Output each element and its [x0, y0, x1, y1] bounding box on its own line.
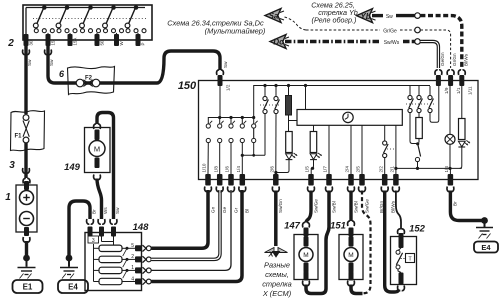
svg-text:150: 150 [178, 80, 197, 92]
wire timer to 2/1 [395, 125, 397, 174]
svg-text:Bl/Ws: Bl/Ws [463, 53, 468, 66]
svg-text:Sw: Sw [223, 61, 228, 68]
arrow symbol Dc [270, 35, 286, 49]
pin 2/4 of 150 [348, 174, 354, 186]
svg-text:1/7: 1/7 [323, 166, 328, 173]
clock symbol [343, 112, 353, 122]
svg-text:30: 30 [29, 40, 34, 45]
svg-text:1/9: 1/9 [444, 87, 449, 94]
pin 4 of 148 [135, 279, 142, 285]
motor 147 box [294, 235, 318, 280]
wire timer to 1/7 [328, 125, 330, 174]
wire Bl/Ws 2/1 to 152 top [396, 191, 401, 230]
svg-text:E4: E4 [68, 283, 78, 292]
LED D3 in 150 [458, 141, 465, 147]
arrow symbol Sa [265, 9, 281, 23]
switch unit 3 in 2 [88, 5, 93, 10]
svg-text:E1: E1 [23, 283, 33, 292]
mechanical coupling dotted line in 2 [33, 18, 146, 20]
pin 1/2 of 150 [218, 75, 223, 86]
pin 1 of 148 [135, 267, 142, 273]
svg-text:M: M [303, 252, 308, 259]
svg-text:15A: 15A [73, 38, 78, 46]
wire fuse3 to battery [24, 143, 27, 178]
internal rail in 150 [396, 167, 462, 169]
wire Br 1/3 to ground E4 [450, 191, 484, 221]
switch S1 in 150 [264, 87, 266, 96]
coupling dots S6 [387, 148, 396, 150]
svg-text:Bl/Ws: Bl/Ws [390, 200, 395, 213]
connector on Gr/Ge wire [415, 27, 421, 33]
svg-text:148: 148 [133, 222, 150, 233]
svg-text:1/8: 1/8 [213, 166, 218, 173]
switch S3 in 150 [409, 86, 411, 95]
svg-text:F1: F1 [14, 134, 22, 140]
pin 1/5 of 150 [308, 174, 314, 186]
switch unit 4 in 2 [111, 5, 116, 10]
arrow symbol X [265, 248, 275, 253]
pin 1/9 of 150 [436, 75, 441, 86]
glow plug resistor 2 in 148 [94, 258, 100, 260]
svg-text:Sw: Sw [49, 59, 54, 66]
switch in 152 [398, 248, 401, 250]
svg-text:Разные: Разные [264, 261, 290, 270]
svg-text:1/11: 1/11 [467, 86, 472, 95]
wire 1/2 internal [219, 86, 221, 118]
wire 2/4 to motor 151 [349, 191, 352, 222]
ground E4 left symbol [68, 258, 70, 267]
svg-text:Gr/Gn: Gr/Gn [452, 53, 457, 66]
label box E4 right [474, 242, 498, 253]
connector into 148 middle [98, 219, 105, 224]
svg-text:Sw/Gn: Sw/Gn [278, 199, 283, 213]
svg-text:Dc: Dc [273, 38, 284, 47]
switch S7 in 150 [418, 144, 421, 157]
svg-text:схемы,: схемы, [265, 270, 289, 279]
pin 2/1 of 150 [393, 174, 399, 186]
wire Gn 148/5 to 150 1/10 [151, 190, 208, 248]
switch S5 in 150 [429, 86, 431, 95]
contact row in 2 [34, 29, 38, 33]
bank bus in 150 [208, 118, 253, 123]
wire battery to ground E1 [25, 241, 28, 258]
pin 2/5 of 150 [359, 174, 365, 186]
motor 151 symbol [344, 248, 358, 262]
motor 147 symbol [299, 248, 313, 262]
svg-text:149: 149 [64, 162, 81, 173]
svg-text:X (ECM): X (ECM) [262, 289, 292, 298]
pin 2 of 148 [135, 256, 142, 262]
ground E4 right junction [481, 217, 488, 224]
svg-text:Gr/Ge: Gr/Ge [383, 28, 397, 34]
pin 15A of switch 2 [68, 34, 73, 46]
svg-text:(Реле обогр.): (Реле обогр.) [312, 16, 357, 25]
svg-text:M: M [94, 144, 100, 153]
switch S4 in 150 [418, 86, 420, 95]
timer unit U1 in 150 [297, 110, 402, 126]
wire Sw from Yb [372, 14, 383, 17]
bank contact pair 4 in 150 [241, 118, 243, 124]
wire S2 to pin 2/6 [275, 114, 277, 174]
bank pair link [253, 128, 255, 138]
svg-text:1/4: 1/4 [236, 166, 241, 173]
wire bank to 1/8 [219, 143, 221, 174]
pin 1/3 of 150 [448, 174, 454, 186]
fuse F1 [23, 115, 29, 121]
fuse F2 [76, 79, 84, 87]
pin 1/6 of 150 [228, 174, 234, 186]
pin 1/8 of 150 [217, 174, 223, 186]
switch unit 2 in 2 [65, 5, 70, 10]
svg-text:151: 151 [330, 221, 346, 232]
wire 151 bottom [351, 285, 363, 294]
resistor R4 in 150 [418, 113, 420, 118]
wire timer to 2/5 [361, 125, 363, 174]
svg-text:1/5: 1/5 [305, 166, 310, 173]
ground E1 symbol [26, 258, 28, 267]
connector above 147 [303, 222, 310, 227]
battery 1 box [16, 185, 37, 232]
wire bus to timer [305, 86, 307, 110]
wire D1 to 2/6 [276, 160, 289, 173]
svg-text:Gn: Gn [210, 206, 215, 213]
bank contact pair 1 in 150 [207, 123, 209, 124]
connector below 147 [303, 281, 310, 286]
pin 1/4 of 150 [240, 174, 246, 186]
svg-text:стрелка: стрелка [262, 280, 292, 289]
thermal element T in 152 [406, 254, 415, 263]
connector below 152 [398, 286, 405, 291]
resistor R1 in 150 [286, 132, 293, 153]
lamp L1 in 150 [449, 86, 451, 134]
svg-text:50: 50 [100, 40, 105, 45]
svg-text:3: 3 [92, 238, 95, 244]
connector above 1/9 [435, 70, 442, 75]
LED D2 in 150 [310, 154, 317, 160]
svg-text:Yb: Yb [360, 12, 370, 21]
svg-text:1/10: 1/10 [202, 163, 207, 172]
coupling dots S1-S2 [260, 104, 281, 106]
resistor R5 in 150 [461, 86, 463, 119]
switch S2 in 150 [275, 87, 277, 96]
wire 147 bottom to 1/7 [306, 191, 329, 294]
svg-text:15: 15 [51, 40, 56, 45]
svg-text:E4: E4 [481, 243, 491, 252]
wire bank to 1/4 [241, 143, 243, 174]
pin 50 of switch 2 [95, 34, 100, 46]
pin 1/7 of 150 [326, 174, 332, 186]
svg-text:Sa: Sa [269, 12, 279, 21]
wire Sw/Ws from Dc [285, 40, 380, 43]
connector on wire 30 [23, 50, 30, 55]
svg-text:3: 3 [9, 160, 15, 171]
battery plus terminal [20, 191, 34, 205]
connector above motor 149 [94, 124, 101, 129]
svg-text:2/5: 2/5 [356, 166, 361, 173]
wire bank column 5 down [253, 143, 255, 156]
svg-text:1/6: 1/6 [225, 166, 230, 173]
svg-text:2/4: 2/4 [345, 166, 350, 173]
svg-text:Sw/Ge: Sw/Ge [364, 199, 369, 213]
svg-text:Ws: Ws [103, 207, 108, 214]
connector on Sw wire [415, 13, 421, 19]
connector on Sw/Ws wire [415, 39, 421, 45]
svg-text:1/3: 1/3 [444, 166, 449, 173]
switch 2 internal feed bus [26, 7, 145, 9]
ground E1 junction [23, 255, 30, 262]
wire Br/Gn 2/2 to 152 bottom [385, 191, 399, 293]
svg-text:(Мультитаймер): (Мультитаймер) [205, 27, 266, 36]
wire 1/5 to motor 147 [306, 191, 311, 223]
motor 149 symbol [89, 141, 105, 157]
internal bus in 150 [254, 86, 430, 118]
pin 1/11 of 150 [459, 75, 464, 86]
pin 1/1 of 150 [448, 75, 453, 86]
ignition switch 2 box [23, 5, 152, 40]
svg-text:Sw: Sw [27, 59, 32, 66]
wire S6 to 2/2 [384, 158, 386, 174]
wire bank to 1/6 [230, 143, 232, 174]
svg-text:P: P [141, 43, 146, 46]
ground E4 right symbol [484, 221, 486, 228]
wire timer to switch S6 [384, 125, 386, 141]
svg-text:F2: F2 [85, 76, 93, 82]
pin 2/6 of 150 [273, 174, 279, 186]
arrow symbol Yb [357, 9, 373, 23]
connector below fuse 3 [23, 168, 30, 173]
connector above 1/1 [447, 70, 454, 75]
wire Sw/Gn 2/6 to X [274, 191, 278, 247]
svg-text:1/2: 1/2 [226, 84, 231, 91]
wire pin15 to fuse F2 to 150/1-2 [48, 46, 220, 83]
wire Ge/Gn to 1/9 [420, 42, 438, 69]
svg-text:2: 2 [131, 254, 134, 260]
wire 148 pin to ground E4 left [69, 201, 90, 258]
connector above 152 [398, 229, 405, 234]
motor 149 box [85, 128, 111, 173]
bank contact pair 5 in 150 [253, 118, 255, 124]
internal bus in 148 [93, 244, 95, 282]
pin 15 of switch 2 [46, 34, 51, 46]
svg-text:M: M [348, 252, 353, 259]
wire Ge 148/2 to 150 1/8 [151, 190, 220, 259]
resistor R2 in 150 [313, 125, 315, 131]
svg-text:4: 4 [131, 276, 134, 282]
wire Gr/Ge dashed from Sa [285, 17, 307, 30]
svg-text:1/1: 1/1 [456, 87, 461, 94]
label box E4 left [58, 280, 88, 293]
wire Gr/Gn to 1/1 [420, 30, 450, 68]
connector above battery [23, 178, 30, 183]
svg-text:2/6: 2/6 [269, 166, 274, 173]
wire 149 top loop to 148 [97, 113, 114, 220]
wire Bl/Ws to 1/11 [420, 16, 461, 68]
wire S3 to node [410, 113, 417, 144]
pin 5 of 148 [135, 245, 142, 251]
bank contact pair 2 in 150 [219, 118, 221, 124]
svg-text:Br: Br [92, 209, 97, 214]
LED D1 in 150 [286, 154, 293, 160]
svg-text:Sw/Ge: Sw/Ge [313, 199, 318, 213]
svg-text:Sw: Sw [115, 207, 120, 214]
contact leads in 2 [47, 33, 49, 35]
svg-text:147: 147 [284, 221, 301, 232]
svg-text:Sw/Bl: Sw/Bl [353, 201, 358, 213]
ground E4 left junction [66, 255, 73, 262]
svg-text:5: 5 [131, 243, 134, 249]
unit 148 box [85, 233, 142, 291]
wire pin30 to fuse 3 [24, 46, 27, 114]
resistor R3 filled in 150 [288, 87, 290, 96]
connector above 151 [348, 221, 355, 226]
svg-text:Sw/Bl: Sw/Bl [331, 201, 336, 213]
glow plug resistor 1 in 148 [94, 247, 100, 249]
wire 149 bottom to 148 [97, 179, 102, 220]
connector above 150 pin 1/2 [217, 70, 224, 75]
wire bank to 1/10 [207, 143, 209, 174]
svg-text:152: 152 [409, 224, 426, 235]
connector into 148 right [110, 219, 117, 224]
glow plug resistor 3 in 148 [94, 269, 100, 271]
pin W of switch 2 [114, 34, 119, 46]
connector below motor 149 [94, 175, 101, 180]
thermo switch 152 box [391, 237, 417, 285]
wire D2 to 1/5 [311, 160, 313, 174]
connector above 1/11 [458, 70, 465, 75]
connector below 151 [348, 281, 355, 286]
switch unit 1 in 2 [42, 5, 47, 10]
wire Bl 148/4 to 150 1/4 [151, 190, 242, 282]
svg-text:Ge/Gn: Ge/Gn [440, 52, 445, 66]
svg-text:1: 1 [131, 265, 134, 271]
wire Gr 148/1 to 150 1/6 [151, 190, 231, 270]
pin P of switch 2 [136, 34, 141, 46]
bank contact pair 3 in 150 [230, 118, 232, 124]
fuse holder 6 box [68, 67, 115, 95]
label box E1 [13, 280, 43, 293]
wire timer to 2/4 [350, 125, 352, 174]
svg-text:Ge: Ge [222, 206, 227, 213]
small connector 3 in 148 [88, 236, 99, 243]
svg-text:X: X [267, 250, 274, 259]
fuse holder 3 box [11, 111, 45, 151]
svg-text:1: 1 [5, 192, 11, 203]
svg-text:2: 2 [7, 38, 14, 49]
connector on wire 15 [45, 50, 52, 55]
motor 151 box [339, 235, 363, 280]
pin 2/2 of 150 [382, 174, 388, 186]
svg-text:Sw/Ws: Sw/Ws [384, 40, 400, 46]
glow plug resistor 4 in 148 [94, 281, 100, 283]
svg-text:Br: Br [452, 201, 457, 206]
svg-text:Bl: Bl [245, 209, 250, 213]
wire 1/9 to S5 [430, 86, 439, 122]
svg-text:Sw: Sw [386, 14, 393, 20]
battery minus terminal [20, 212, 34, 226]
svg-text:2/2: 2/2 [378, 166, 383, 173]
connector into 148 left [87, 219, 94, 224]
wire node link to switch S1 [242, 154, 265, 156]
pin 1/10 of 150 [205, 174, 211, 186]
multitimer 150 box [199, 81, 479, 180]
wire D3 to rail [460, 147, 462, 168]
switch unit 5 in 2 [134, 5, 139, 10]
connector below battery [23, 237, 30, 242]
pin 30 of switch 2 [24, 34, 29, 46]
switch S6 in 150 [383, 141, 387, 145]
svg-text:Gr: Gr [233, 207, 238, 213]
svg-text:2/1: 2/1 [390, 166, 395, 173]
wire Sw/Ge 2/5 dashed [362, 191, 371, 294]
coupling dots S3-S5 [406, 103, 434, 105]
